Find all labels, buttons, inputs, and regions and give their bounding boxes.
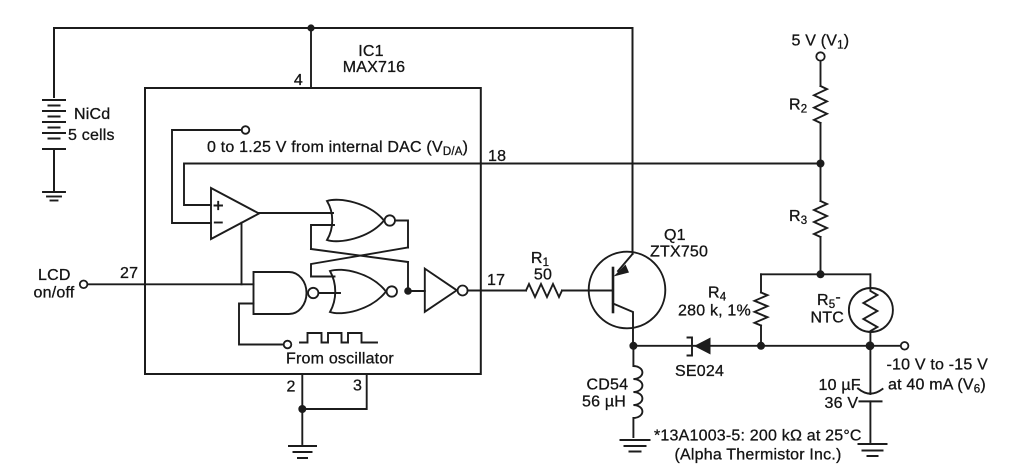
- op-amp plus sign: [215, 202, 223, 209]
- svg-text:3: 3: [353, 378, 362, 395]
- ground IC pins: [289, 446, 316, 458]
- wire 5V terminal to R2: [820, 61, 822, 87]
- diode SE024 triangle: [694, 338, 711, 355]
- battery NiCd 5 cells: [43, 100, 65, 192]
- wire top rail from battery to Q1 collector line: [54, 28, 633, 97]
- wire junction to R3: [820, 164, 822, 202]
- wire op-amp underside to NAND input: [241, 223, 243, 284]
- node junction R5 bottom / capacitor: [866, 341, 875, 350]
- bubble U4 output: [387, 286, 397, 296]
- wire U3 lower input to oscillator terminal: [239, 304, 284, 345]
- wire capacitor to ground: [869, 401, 871, 442]
- svg-text:NTC: NTC: [811, 310, 844, 327]
- bubble U5 output: [458, 286, 468, 296]
- svg-text:at 40 mA (V6): at 40 mA (V6): [888, 377, 986, 396]
- node junction pin18/R2/R3: [817, 160, 825, 168]
- ground capacitor: [859, 444, 887, 456]
- node 5V terminal circle: [816, 52, 824, 60]
- svg-text:5 cells: 5 cells: [68, 127, 115, 144]
- wire R2 to junction: [820, 123, 822, 164]
- wire op-amp output to NOR U2 input: [259, 212, 333, 214]
- node junction R3 bottom: [817, 270, 825, 278]
- thermistor R5 zigzag: [863, 274, 877, 346]
- svg-text:36 V: 36 V: [825, 395, 859, 412]
- resistor R1: [526, 284, 562, 297]
- resistor R2: [814, 86, 827, 123]
- svg-text:IC1: IC1: [358, 43, 384, 60]
- capacitor straight plate: [860, 400, 882, 402]
- svg-text:(Alpha Thermistor Inc.): (Alpha Thermistor Inc.): [675, 447, 842, 464]
- svg-text:0 to 1.25 V from internal DAC: 0 to 1.25 V from internal DAC (VD/A): [207, 139, 468, 158]
- NOR gate U2 (top of latch): [327, 200, 384, 241]
- svg-text:ZTX750: ZTX750: [650, 244, 708, 261]
- wire U4 output rise stub: [407, 262, 409, 291]
- svg-text:SE024: SE024: [675, 363, 724, 380]
- inductor CD54 56uH: [633, 346, 642, 437]
- svg-text:17: 17: [487, 272, 505, 289]
- wire cross diagonal from U2 out to U4 input: [311, 248, 408, 277]
- svg-text:50: 50: [534, 267, 552, 284]
- svg-text:NiCd: NiCd: [74, 106, 110, 123]
- wire pin 27 net: LCD terminal to NAND input: [88, 283, 254, 285]
- svg-text:Q1: Q1: [664, 227, 686, 244]
- svg-text:-10 V to -15 V: -10 V to -15 V: [887, 357, 989, 374]
- wire R4/R5 top link: [761, 273, 870, 275]
- op-amp U1 comparator: [211, 188, 259, 239]
- node junction R4 bottom: [757, 342, 765, 350]
- svg-text:4: 4: [294, 72, 303, 89]
- svg-text:on/off: on/off: [34, 285, 75, 302]
- transistor Q1 base bar: [612, 268, 615, 312]
- bubble U2 output: [385, 215, 395, 225]
- resistor R3: [814, 201, 827, 237]
- wire DAC to op-amp minus input: [172, 130, 242, 223]
- wire junction to buffer: [408, 290, 425, 292]
- wire U3 output to U4 input: [319, 292, 341, 294]
- transistor Q1 emitter with arrow: [618, 254, 633, 271]
- node output terminal circle: [901, 342, 909, 350]
- svg-text:2: 2: [286, 379, 295, 396]
- ground inductor: [621, 440, 650, 452]
- svg-text:CD54: CD54: [587, 377, 629, 394]
- wire R4 leads: [760, 274, 762, 292]
- svg-text:10 µF: 10 µF: [819, 377, 861, 394]
- node LCD terminal circle: [80, 281, 88, 289]
- wire pin 3 drop and link: [302, 374, 366, 409]
- svg-text:280 k, 1%: 280 k, 1%: [678, 303, 751, 320]
- svg-text:27: 27: [120, 265, 138, 282]
- capacitor curved plate: [858, 389, 883, 394]
- node junction U4 output: [404, 287, 412, 295]
- svg-text:56 µH: 56 µH: [582, 394, 626, 411]
- svg-text:*13A1003-5: 200 kΩ at 25°C: *13A1003-5: 200 kΩ at 25°C: [654, 428, 862, 445]
- bubble U3 output: [308, 288, 318, 298]
- NOR gate U4 (bottom of latch): [330, 270, 386, 313]
- wire pin 2 drop: [301, 374, 303, 409]
- IC1 MAX716 box: [145, 88, 481, 374]
- node DAC terminal circle: [242, 126, 250, 134]
- transistor Q1 circle: [589, 252, 666, 329]
- wire U2 lower input stub: [311, 225, 334, 249]
- wire pin 17 net to R1: [468, 290, 526, 292]
- thermistor R5 circle: [849, 288, 893, 332]
- wire pin 4 drop into IC box: [310, 28, 312, 88]
- svg-text:LCD: LCD: [38, 267, 71, 284]
- wire bottom net collector to output terminal: [633, 345, 900, 347]
- wire cross diagonal from U4 out to U2 input: [311, 249, 408, 262]
- symbol oscillator square wave: [300, 333, 377, 343]
- wire R1 to Q1 base: [562, 290, 612, 292]
- wire U2 output to cross-coupling: [395, 221, 408, 248]
- wire vertical rail down to Q1 emitter: [632, 28, 634, 254]
- ground battery: [43, 192, 65, 201]
- diode SE024 cathode bar: [688, 338, 693, 356]
- wire to IC ground: [301, 409, 303, 444]
- svg-text:18: 18: [488, 148, 506, 165]
- op-amp minus sign: [215, 222, 222, 224]
- resistor R4: [755, 293, 768, 326]
- inverter buffer U5: [425, 269, 457, 312]
- transistor Q1 collector: [613, 304, 633, 347]
- capacitor 10uF lead: [869, 346, 871, 394]
- node junction collector/inductor: [629, 342, 637, 350]
- svg-text:From oscillator: From oscillator: [286, 351, 394, 368]
- svg-text:MAX716: MAX716: [343, 59, 406, 76]
- wire pin 18 net: op-amp plus input to R2/R3 junction: [184, 164, 821, 206]
- wire R3 to R4/R5 link: [820, 237, 822, 274]
- NAND gate U3: [254, 272, 307, 314]
- node oscillator terminal circle: [284, 341, 292, 349]
- node junction pins 2-3: [298, 405, 306, 413]
- node junction pin4 on top rail: [307, 24, 314, 31]
